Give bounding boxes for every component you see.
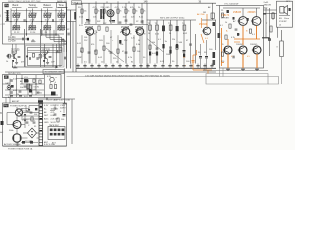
svg-text:8Ω: 8Ω — [279, 18, 282, 20]
svg-text:14 15: 14 15 — [30, 20, 35, 22]
svg-text:100: 100 — [61, 119, 64, 121]
svg-text:Band: Band — [13, 4, 19, 7]
svg-text:2SB345: 2SB345 — [250, 44, 258, 46]
svg-text:0.1: 0.1 — [220, 25, 223, 27]
svg-text:100: 100 — [84, 37, 87, 39]
svg-text:21 22: 21 22 — [14, 32, 20, 34]
svg-text:J: J — [0, 24, 1, 26]
svg-text:0.5: 0.5 — [84, 62, 87, 64]
svg-text:IF AMP: IF AMP — [121, 28, 128, 31]
svg-text:FM: FM — [5, 6, 8, 8]
svg-text:50WV: 50WV — [60, 108, 66, 110]
svg-text:0.05: 0.05 — [79, 25, 83, 27]
svg-text:IF AMP: IF AMP — [85, 28, 92, 31]
svg-text:DRIVER: DRIVER — [221, 17, 229, 19]
svg-text:220: 220 — [221, 61, 224, 63]
svg-text:25: 25 — [116, 62, 118, 64]
svg-text:10%: 10% — [99, 40, 103, 42]
svg-text:2k: 2k — [120, 11, 122, 13]
svg-text:0.01: 0.01 — [24, 96, 28, 98]
svg-text:AGC: AGC — [44, 118, 49, 121]
svg-text:0.5: 0.5 — [247, 56, 250, 58]
svg-text:50 6V: 50 6V — [51, 122, 57, 124]
svg-text:480mW: 480mW — [264, 5, 272, 7]
svg-text:6.3V: 6.3V — [47, 76, 52, 78]
svg-text:500: 500 — [34, 114, 37, 116]
svg-text:C1-03x: C1-03x — [8, 37, 16, 39]
svg-text:47: 47 — [186, 40, 188, 42]
svg-text:100P: 100P — [166, 54, 171, 56]
svg-text:POWER SUPPLY: POWER SUPPLY — [10, 106, 27, 108]
svg-text:2k: 2k — [17, 94, 19, 96]
svg-text:2k: 2k — [144, 11, 146, 13]
svg-text:100: 100 — [137, 51, 140, 53]
svg-text:10: 10 — [101, 62, 103, 64]
svg-text:14B: 14B — [144, 2, 149, 4]
svg-text:10cm: 10cm — [284, 18, 289, 20]
svg-text:5k: 5k — [136, 11, 138, 13]
svg-text:SW 2.5W OUTPUT 455kc: SW 2.5W OUTPUT 455kc — [160, 18, 186, 20]
svg-text:AF 2SB: AF 2SB — [197, 13, 205, 16]
svg-text:10k: 10k — [84, 11, 87, 13]
svg-text:26 27: 26 27 — [59, 30, 65, 32]
svg-text:5k: 5k — [138, 40, 140, 42]
svg-text:C1-03e: C1-03e — [8, 40, 16, 42]
svg-text:2SB345: 2SB345 — [233, 12, 242, 14]
svg-text:DET AVC 455: DET AVC 455 — [8, 72, 21, 75]
svg-text:23 24: 23 24 — [30, 32, 36, 34]
svg-text:16: 16 — [45, 20, 47, 22]
svg-text:2k: 2k — [80, 51, 82, 53]
svg-text:6.3V 0.15A: 6.3V 0.15A — [44, 143, 55, 146]
svg-text:OTL 2x450mW: OTL 2x450mW — [224, 3, 239, 5]
svg-text:16Ω: 16Ω — [264, 7, 268, 9]
svg-text:30: 30 — [94, 51, 96, 53]
svg-text:Tone: Tone — [59, 4, 65, 7]
svg-text:25: 25 — [221, 10, 223, 12]
svg-text:6.3V: 6.3V — [44, 105, 49, 107]
svg-text:Tuning: Tuning — [29, 4, 37, 7]
svg-text:Balanc: Balanc — [44, 4, 52, 7]
svg-text:GND: GND — [44, 122, 49, 124]
svg-text:SPY: SPY — [286, 1, 291, 3]
svg-text:1k: 1k — [128, 11, 130, 13]
svg-text:1k: 1k — [98, 11, 100, 13]
svg-text:455kc: 455kc — [85, 23, 90, 25]
svg-text:35: 35 — [34, 126, 36, 128]
svg-text:0.1: 0.1 — [158, 39, 161, 41]
svg-text:8k: 8k — [131, 62, 133, 64]
svg-text:(: ( — [0, 14, 1, 18]
svg-text:1k: 1k — [108, 51, 110, 53]
svg-text:47: 47 — [122, 51, 124, 53]
svg-text:TAPE REC: TAPE REC — [49, 124, 60, 127]
svg-text:IF AMP: IF AMP — [135, 28, 142, 31]
svg-text:50Hz: 50Hz — [9, 130, 14, 132]
svg-text:12 13: 12 13 — [14, 20, 19, 22]
svg-text:22k: 22k — [172, 39, 175, 41]
svg-text:POWER TRANS FUSE 1A: POWER TRANS FUSE 1A — [8, 148, 33, 150]
svg-text:DYN SP: DYN SP — [279, 21, 287, 23]
svg-text:17 18: 17 18 — [59, 20, 64, 22]
svg-text:AC: AC — [0, 131, 3, 134]
svg-text:100 10V: 100 10V — [51, 108, 59, 110]
svg-text:100P: 100P — [77, 57, 82, 59]
svg-text:OUT: OUT — [203, 69, 208, 71]
svg-text:2SC620: 2SC620 — [199, 24, 208, 26]
svg-text:2SB345: 2SB345 — [248, 12, 257, 14]
